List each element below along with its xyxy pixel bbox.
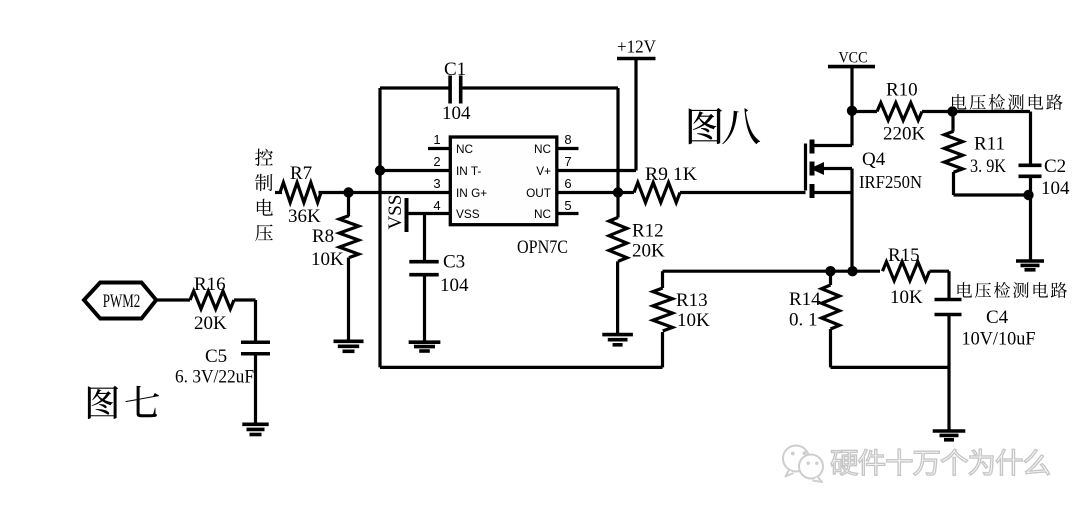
port PWM2 hexagon — [84, 283, 156, 319]
wire pin2 INT- — [380, 169, 450, 172]
wire pin4 VSS — [407, 212, 451, 215]
node junction R10/R11/C2wire — [947, 106, 957, 116]
svg-text:C5: C5 — [205, 346, 227, 367]
wire pin6 OUT — [557, 191, 618, 194]
capacitor C1 — [450, 76, 461, 104]
wire drain vertical — [850, 111, 853, 146]
svg-text:104: 104 — [442, 103, 471, 124]
svg-text:104: 104 — [1041, 178, 1070, 199]
resistor R15 — [883, 262, 930, 281]
svg-text:3: 3 — [433, 176, 440, 191]
wire node to C2 top — [953, 110, 1031, 113]
wire OUT to R9 — [618, 191, 634, 194]
title 图七 (Figure 7) — [88, 386, 159, 419]
svg-text:10V/10uF: 10V/10uF — [962, 329, 1036, 350]
wire R13 bottom — [661, 332, 664, 367]
svg-text:104: 104 — [440, 275, 469, 296]
wire source vertical — [850, 169, 853, 272]
svg-text:20K: 20K — [632, 241, 665, 262]
svg-text:OUT: OUT — [526, 186, 551, 200]
wire R8 to ground — [347, 258, 350, 342]
transistor Q4 IRF250N symbol — [806, 140, 853, 199]
wire pin4 drop to C3 — [423, 214, 426, 263]
wire R15 to C4 — [930, 270, 950, 273]
wire feedback vertical (pin2 to bottom loop) — [378, 88, 381, 367]
ground C2/R11 — [1016, 261, 1044, 270]
svg-text:Q4: Q4 — [862, 149, 886, 170]
wire C1 right vertical to OUT — [616, 88, 619, 193]
pin 5 stub — [557, 212, 579, 215]
svg-text:1: 1 — [433, 132, 440, 147]
wire corner down to C5 — [254, 300, 257, 343]
resistor R11 top lead — [951, 112, 954, 132]
wire C4 top vertical — [947, 271, 950, 299]
svg-text:+12V: +12V — [617, 37, 656, 57]
svg-text:2: 2 — [433, 154, 440, 169]
svg-text:R10: R10 — [886, 80, 918, 101]
resistor R14 — [822, 285, 840, 329]
svg-text:VSS: VSS — [385, 195, 406, 230]
wire R12 to ground — [616, 261, 619, 334]
svg-text:R14: R14 — [789, 289, 821, 310]
svg-text:V+: V+ — [536, 164, 551, 178]
svg-text:0. 1: 0. 1 — [789, 310, 818, 331]
node junction OUT/R9/R12/C1 — [613, 187, 623, 197]
svg-text:VSS: VSS — [456, 207, 480, 221]
wire C3 to ground — [423, 275, 426, 343]
node junction R11/C2 bottom — [1023, 190, 1033, 200]
svg-text:NC: NC — [534, 207, 552, 221]
node junction source/R15 — [847, 266, 857, 276]
svg-text:OPN7C: OPN7C — [517, 237, 568, 258]
svg-text:C4: C4 — [986, 307, 1009, 328]
wire R11 to C2 bottom — [954, 193, 1031, 196]
node junction VCC/R10/drain — [847, 106, 857, 116]
wire VCC node to R10 — [852, 110, 877, 113]
wire R11 bottom — [952, 172, 955, 195]
svg-text:R8: R8 — [312, 226, 334, 247]
svg-text:R11: R11 — [974, 134, 1005, 155]
wire R9 to gate Q4 — [680, 191, 806, 194]
wire PWM2 to R16 — [157, 298, 191, 301]
resistor R10 — [877, 103, 922, 121]
svg-text:R16: R16 — [194, 274, 226, 295]
svg-text:3. 9K: 3. 9K — [970, 156, 1006, 177]
resistor R13 — [653, 288, 673, 331]
watermark logo — [783, 446, 823, 483]
svg-text:VCC: VCC — [839, 50, 868, 67]
svg-text:C2: C2 — [1044, 156, 1066, 177]
node junction pin2/feedback — [375, 165, 385, 175]
pin 1 stub — [428, 147, 450, 150]
capacitor C3 — [409, 262, 438, 275]
resistor R11 — [944, 131, 962, 172]
watermark text 硬件十万个为什么 — [831, 449, 1050, 475]
pin 8 stub — [557, 147, 579, 150]
wire pin7 V+ to +12V — [557, 169, 636, 172]
svg-text:10K: 10K — [890, 287, 923, 308]
wire R14 to C4 bottom — [831, 366, 950, 369]
capacitor C2 — [1019, 165, 1042, 176]
svg-text:R15: R15 — [888, 245, 920, 266]
svg-text:IN G+: IN G+ — [456, 186, 487, 200]
svg-text:R12: R12 — [632, 221, 664, 242]
wire input to R7 — [275, 191, 282, 194]
op-amp U1 OPN7C body — [450, 137, 557, 225]
power VCC bar — [828, 65, 875, 69]
wire C2 bottom vertical — [1029, 176, 1032, 261]
wire bottom feedback loop — [380, 366, 663, 369]
wire C4 bottom vertical — [947, 315, 950, 432]
net label 电压检测电路 bottom — [958, 282, 1068, 298]
wire C2 top vertical — [1029, 112, 1032, 166]
svg-text:220K: 220K — [883, 124, 926, 145]
resistor R9 — [634, 183, 680, 203]
node junction R7/R8/pin3 — [343, 187, 353, 197]
ground R12 — [602, 335, 633, 345]
net label 控制电压 (control voltage) — [255, 149, 273, 242]
svg-text:36K: 36K — [288, 206, 321, 227]
svg-text:IRF250N: IRF250N — [859, 172, 922, 192]
wire R13 top — [661, 271, 664, 288]
svg-text:6: 6 — [564, 176, 571, 191]
wire junction to IC pin3 — [349, 191, 451, 194]
wire R7 to junction — [319, 191, 349, 194]
svg-text:NC: NC — [456, 142, 474, 156]
resistor R8 — [339, 216, 358, 258]
ground C4 — [933, 431, 966, 440]
wire OUT to R12 — [616, 193, 619, 218]
ground C5 — [242, 424, 268, 434]
capacitor C4 — [935, 300, 962, 315]
svg-text:R9 1K: R9 1K — [645, 164, 697, 185]
power +12V bar — [617, 57, 656, 61]
node junction R14 top — [825, 266, 835, 276]
svg-text:10K: 10K — [311, 249, 344, 270]
wire R14 bottom — [829, 329, 832, 367]
svg-text:R7: R7 — [290, 163, 312, 184]
svg-text:10K: 10K — [677, 310, 710, 331]
title 图八 (Figure 8) — [689, 108, 761, 144]
net label 电压检测电路 top — [952, 94, 1063, 110]
wire VCC down — [850, 67, 853, 112]
resistor R7 — [280, 183, 321, 203]
svg-text:C1: C1 — [444, 59, 466, 80]
resistor R12 — [609, 217, 627, 261]
svg-text:8: 8 — [564, 132, 571, 147]
svg-text:7: 7 — [564, 154, 571, 169]
svg-text:6. 3V/22uF: 6. 3V/22uF — [175, 367, 254, 388]
wire C1 top-left — [380, 86, 449, 89]
svg-text:C3: C3 — [443, 252, 465, 273]
wire +12V to pin7 — [634, 59, 637, 171]
ground R8 — [334, 341, 364, 351]
svg-text:5: 5 — [564, 198, 571, 213]
wire R10 to node — [922, 110, 953, 113]
capacitor C5 — [241, 342, 270, 354]
svg-text:20K: 20K — [194, 313, 227, 334]
VSS terminal bar — [405, 198, 409, 232]
ground C3 — [409, 342, 441, 351]
svg-text:R13: R13 — [676, 290, 708, 311]
wire junction to R8 — [347, 193, 350, 217]
resistor R16 — [190, 291, 234, 309]
svg-text:IN T-: IN T- — [456, 164, 481, 178]
wire source node horizontal — [663, 270, 881, 273]
wire R16 to corner — [234, 298, 256, 301]
svg-text:NC: NC — [534, 142, 552, 156]
wire C1 top-right — [462, 86, 618, 89]
svg-text:PWM2: PWM2 — [103, 292, 141, 312]
svg-text:4: 4 — [433, 198, 440, 213]
wire R14 top lead — [829, 271, 832, 285]
wire C5 to ground — [254, 354, 257, 425]
